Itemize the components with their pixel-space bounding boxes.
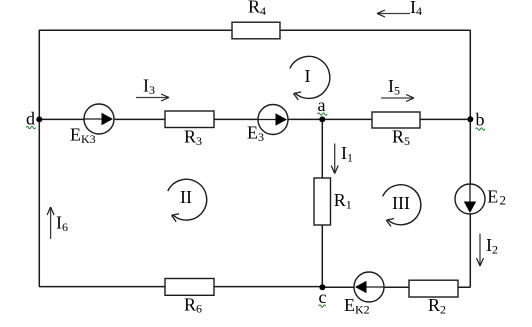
label EK2 [344, 295, 370, 316]
label R1 [334, 190, 352, 211]
source E2 (circle with down arrow) [455, 184, 485, 214]
wire bottom side c to bottom-right corner [322, 286, 470, 288]
svg-text:III: III [392, 193, 410, 213]
resistor R6 [165, 279, 214, 296]
wire middle row d to b [39, 118, 470, 120]
label I (loop) [305, 66, 311, 86]
current arrow I4 [377, 10, 410, 17]
label I4 [410, 0, 422, 18]
label I6 [56, 213, 68, 234]
current arrow I2 [477, 234, 484, 267]
wire right side (top-right corner down to bottom-right corner) [469, 30, 471, 287]
label R2 [428, 295, 446, 316]
node a [319, 116, 325, 122]
svg-text:b: b [476, 110, 485, 130]
label R4 [248, 0, 266, 18]
svg-text:d: d [26, 109, 35, 129]
label d [26, 109, 36, 129]
wire left side (top-left corner down to bottom-left corner) [38, 30, 40, 287]
label I2 [486, 235, 498, 256]
svg-text:I: I [305, 66, 311, 86]
node c [319, 284, 325, 290]
wire top side (R4 to top-right corner) [280, 29, 470, 31]
current arrow I6 [47, 207, 54, 239]
wire middle column a to c [321, 119, 323, 287]
wire top side (left segment, corner to R4) [39, 29, 232, 31]
label R3 [184, 127, 202, 148]
label R6 [184, 294, 202, 315]
resistor R4 [232, 22, 280, 39]
resistor R2 [409, 280, 458, 297]
label II (loop) [180, 187, 192, 207]
source EK2 (circle with left arrow) [354, 272, 384, 302]
label R5 [392, 127, 410, 148]
loop arrow I [290, 56, 330, 99]
label c [319, 287, 327, 307]
node b [467, 116, 473, 122]
resistor R5 [372, 112, 420, 128]
label EK3 [70, 125, 96, 146]
label I1 [341, 143, 353, 164]
svg-text:a: a [318, 95, 326, 115]
svg-text:c: c [319, 287, 327, 307]
current arrow I3 [136, 94, 169, 101]
svg-text:II: II [180, 187, 192, 207]
node d [36, 116, 42, 122]
label III (loop) [392, 193, 410, 213]
resistor R1 [314, 178, 331, 225]
label I5 [388, 76, 400, 97]
source E3 (circle with right arrow) [258, 105, 288, 135]
label b [476, 110, 486, 131]
current arrow I1 [331, 144, 338, 174]
label E2 [487, 187, 506, 208]
label E3 [247, 123, 264, 144]
resistor R3 [165, 111, 214, 128]
source EK3 (circle with right arrow) [84, 104, 114, 134]
loop arrow III [383, 185, 421, 227]
loop arrow II [168, 179, 207, 221]
label a [318, 95, 328, 115]
current arrow I5 [381, 95, 414, 102]
wire bottom side d-corner to c [39, 286, 322, 288]
label I3 [143, 76, 155, 97]
